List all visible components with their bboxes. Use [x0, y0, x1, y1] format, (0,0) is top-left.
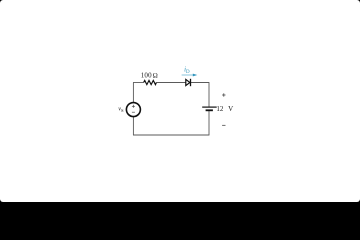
svg-text:V: V — [228, 105, 233, 113]
svg-text:Ω: Ω — [153, 72, 158, 80]
battery long plate — [202, 106, 217, 108]
voltage source minus sign — [132, 111, 135, 113]
svg-text:12: 12 — [216, 105, 224, 113]
wire bottom segment — [133, 134, 209, 136]
diode D1 triangle — [186, 79, 190, 85]
battery minus label — [222, 124, 225, 126]
wire left vertical bottom part — [132, 116, 134, 135]
svg-text:iD: iD — [184, 67, 190, 75]
wire top left segment — [133, 82, 144, 84]
svg-text:100: 100 — [141, 72, 152, 80]
battery plus label — [222, 93, 225, 96]
voltage source plus sign — [132, 105, 135, 108]
wire right vertical top part — [208, 82, 210, 107]
wire top middle segment — [156, 82, 185, 84]
wire right vertical bottom part — [208, 110, 210, 135]
wire left vertical top part — [132, 83, 134, 103]
svg-text:vS: vS — [118, 106, 124, 113]
battery short thick plate — [206, 109, 213, 111]
wire top right segment — [191, 82, 209, 84]
diode D1 cathode bar — [190, 79, 192, 86]
current arrow iD — [182, 74, 194, 76]
voltage source VS circle — [126, 103, 140, 117]
resistor R 100 ohm zigzag — [144, 80, 157, 84]
